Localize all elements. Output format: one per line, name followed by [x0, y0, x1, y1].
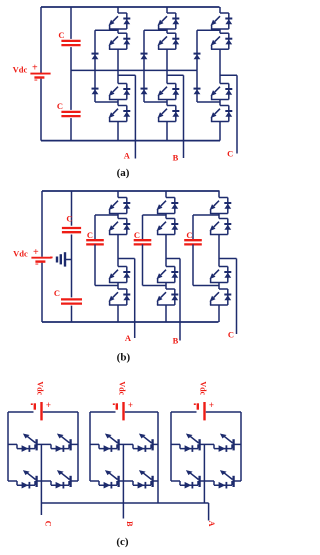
battery Vdc fig(b)	[31, 247, 51, 270]
wire: fig(b) left source wire lower	[41, 263, 43, 322]
wire: fig(a) phase A output horizontal	[118, 74, 135, 76]
transistor switch S2 leg B fig(b)	[157, 219, 179, 235]
transistor switch lower-left cell 3 fig(c)	[180, 470, 200, 488]
wire: fig(a) leg C clamp diode branch upper	[196, 30, 198, 70]
wire: fig(a) capacitor bus lower	[70, 118, 72, 141]
wire: fig(a) leg A between S1 S2	[117, 29, 119, 33]
svg-text:(a): (a)	[117, 167, 130, 179]
svg-text:C: C	[134, 230, 140, 240]
wire: fig(b) leg C emitter to bottom rail	[218, 305, 220, 322]
transistor switch S1 leg B fig(b)	[157, 198, 179, 214]
wire: fig(a) capacitor bus middle	[70, 47, 72, 110]
wire: fig(b) leg A emitter to bottom rail	[117, 305, 119, 322]
svg-text:(c): (c)	[116, 536, 129, 548]
transistor switch S2 leg C fig(a)	[211, 33, 233, 49]
wire: fig(c) cell 2 right side extension to chain	[157, 481, 159, 503]
wire: fig(b) bottom DC rail	[42, 321, 219, 323]
wire: fig(a) capacitor bus upper	[70, 7, 72, 39]
wire: fig(a) leg B junction S1S2 to clamp diodes	[144, 29, 167, 31]
wire: fig(a) top DC rail	[41, 6, 220, 8]
wire: fig(a) leg C clamp diode branch lower	[196, 70, 198, 102]
svg-text:A: A	[124, 151, 131, 161]
clamp diode D1 leg A fig(a)	[92, 54, 99, 60]
wire: fig(b) leg A collector stub	[117, 191, 119, 198]
transistor switch S4 leg A fig(b)	[109, 289, 131, 305]
svg-text:B: B	[173, 336, 179, 346]
wire: fig(a) leg B clamp diode branch lower	[143, 70, 145, 102]
wire: fig(c) cell 1 lower row right	[71, 480, 78, 482]
wire: fig(b) leg A junction S3S4 to flying cap	[95, 285, 118, 287]
transistor switch S3 leg B fig(a)	[158, 84, 180, 100]
wire: fig(b) leg A between S3 S4	[117, 283, 119, 290]
svg-text:Vdc: Vdc	[35, 381, 44, 395]
wire: fig(a) phase B output horizontal	[167, 74, 184, 76]
wire: fig(c) cell 1 upper row left	[8, 443, 17, 445]
wire: fig(a) phase A output drop	[134, 75, 136, 158]
svg-text:Vdc: Vdc	[13, 249, 28, 259]
transistor switch S1 leg C fig(a)	[211, 13, 233, 29]
svg-text:+: +	[33, 247, 39, 258]
wire: fig(c) cell 1 left side	[7, 412, 9, 481]
transistor switch lower-left cell 1 fig(c)	[17, 470, 37, 488]
wire: fig(b) leg A between S1 S2	[117, 214, 119, 219]
wire: fig(a) leg C emitter to bottom rail	[219, 122, 221, 141]
battery cell bars (navy) fig(b)	[50, 252, 72, 266]
transistor switch lower-right cell 2 fig(c)	[133, 470, 153, 488]
wire: fig(c) cell 3 right side	[240, 412, 242, 481]
wire: fig(b) leg A flying cap column lower	[94, 244, 96, 285]
wire: fig(c) cell 2 upper row middle	[119, 443, 133, 445]
transistor switch S1 leg A fig(b)	[109, 198, 131, 214]
svg-text:B: B	[173, 153, 179, 163]
transistor switch S1 leg A fig(a)	[109, 13, 131, 29]
battery Vdc fig(a)	[30, 63, 50, 86]
wire: fig(b) leg B between S3 S4	[165, 283, 167, 290]
wire: fig(a) phase C output drop	[236, 75, 238, 153]
wire: fig(c) cell 2 lower row left	[90, 480, 99, 482]
wire: fig(c) series chain line	[41, 502, 208, 504]
wire: fig(b) top DC rail	[42, 190, 220, 192]
wire: fig(b) phase B output drop	[179, 259, 181, 341]
svg-text:C: C	[66, 214, 72, 224]
svg-text:C: C	[227, 149, 233, 159]
transistor switch S3 leg C fig(a)	[211, 84, 233, 100]
clamp diode D1 leg B fig(a)	[141, 54, 148, 60]
wire: fig(b) leg C between S1 S2	[218, 214, 220, 219]
capacitor C bottom bus fig(b)	[61, 299, 82, 303]
flying capacitor C leg A fig(b)	[86, 240, 104, 244]
transistor switch upper-left cell 1 fig(c)	[17, 434, 37, 452]
svg-text:+: +	[46, 400, 51, 410]
wire: fig(b) leg C middle section	[218, 235, 220, 267]
wire: fig(c) cell 2 left side	[89, 412, 91, 481]
wire: fig(a) leg B middle section	[166, 49, 168, 83]
wire: fig(c) cell 1 upper row middle	[37, 443, 51, 445]
wire: fig(c) cell 1 center column	[40, 444, 42, 503]
wire: fig(a) leg B junction S3S4 to clamp diodes	[144, 101, 167, 103]
transistor switch S4 leg C fig(a)	[211, 106, 233, 122]
wire: fig(c) cell 1 top right	[43, 411, 78, 413]
transistor switch upper-right cell 1 fig(c)	[51, 434, 71, 452]
transistor switch S4 leg B fig(b)	[157, 289, 179, 305]
capacitor C bottom fig(a)	[61, 112, 80, 116]
clamp diode D2 leg C fig(a)	[194, 89, 201, 95]
wire: fig(b) leg A flying cap column upper	[94, 215, 96, 240]
wire: fig(a) leg C junction S1S2 to clamp diodes	[197, 29, 220, 31]
svg-text:Vdc: Vdc	[198, 381, 207, 395]
wire: fig(a) leg B emitter to bottom rail	[166, 122, 168, 141]
wire: fig(c) phase B output drop	[122, 503, 124, 519]
wire: fig(b) phase A output horizontal	[118, 258, 135, 260]
wire: fig(b) leg B middle section	[165, 235, 167, 267]
battery Vdc cell 1 fig(c)	[31, 400, 51, 420]
transistor switch upper-left cell 3 fig(c)	[180, 434, 200, 452]
wire: fig(a) phase C output horizontal	[220, 74, 237, 76]
wire: fig(c) cell 1 lower row left	[8, 480, 17, 482]
wire: fig(c) phase C output drop	[40, 503, 42, 515]
wire: fig(b) leg B junction S1S2 to flying cap	[143, 214, 167, 216]
transistor switch upper-right cell 2 fig(c)	[133, 434, 153, 452]
transistor switch S2 leg A fig(b)	[109, 219, 131, 235]
transistor switch S3 leg A fig(b)	[109, 267, 131, 283]
transistor switch S2 leg A fig(a)	[109, 33, 131, 49]
wire: fig(c) cell 2 top left	[90, 411, 116, 413]
svg-text:A: A	[207, 521, 216, 527]
wire: fig(c) cell 2 lower row right	[153, 480, 158, 482]
svg-text:+: +	[209, 400, 214, 410]
wire: fig(b) leg B emitter to bottom rail	[165, 305, 167, 322]
wire: fig(a) leg C between S1 S2	[219, 29, 221, 33]
wire: fig(a) leg A emitter to bottom rail	[117, 122, 119, 141]
wire: fig(c) cell 3 lower row left	[171, 480, 180, 482]
transistor switch upper-right cell 3 fig(c)	[214, 434, 234, 452]
wire: fig(b) leg C flying cap column upper	[192, 215, 194, 240]
capacitor C top bus fig(b)	[62, 228, 81, 232]
svg-text:(b): (b)	[117, 352, 131, 364]
wire: fig(a) left source wire upper	[40, 7, 42, 73]
transistor switch S3 leg A fig(a)	[109, 84, 131, 100]
svg-text:+: +	[32, 63, 38, 74]
wire: fig(c) cell 3 upper row middle	[200, 443, 214, 445]
wire: fig(b) phase B output horizontal	[166, 258, 180, 260]
wire: fig(a) left source wire lower	[40, 79, 42, 141]
wire: fig(b) leg C junction S3S4 to flying cap	[193, 285, 219, 287]
wire: fig(a) leg B clamp diode branch upper	[143, 30, 145, 70]
flying capacitor C leg B fig(b)	[134, 240, 152, 244]
wire: fig(c) cell 2 right side	[157, 412, 159, 481]
wire: fig(a) leg A clamp diode branch lower	[94, 70, 96, 102]
wire: fig(b) leg B junction S3S4 to flying cap	[143, 285, 167, 287]
transistor switch S3 leg C fig(b)	[210, 267, 232, 283]
wire: fig(c) cell 2 upper row left	[90, 443, 99, 445]
wire: fig(b) phase C output horizontal	[219, 258, 237, 260]
transistor switch S4 leg B fig(a)	[158, 106, 180, 122]
wire: fig(a) leg C between S3 S4	[219, 100, 221, 106]
wire: fig(b) leg B between S1 S2	[165, 214, 167, 219]
wire: fig(a) phase B output drop	[183, 75, 185, 158]
capacitor C top fig(a)	[61, 41, 80, 45]
wire: fig(c) cell 3 upper row right	[234, 443, 241, 445]
wire: fig(a) leg A between S3 S4	[117, 100, 119, 106]
wire: fig(a) leg C middle section	[219, 49, 221, 83]
svg-text:C: C	[58, 30, 64, 40]
wire: fig(c) cell 3 top left	[171, 411, 197, 413]
wire: fig(c) phase A output drop	[208, 503, 210, 521]
wire: fig(a) leg A junction S1S2 to clamp diodes	[95, 29, 118, 31]
battery Vdc cell 2 fig(c)	[113, 400, 133, 420]
wire: fig(b) leg B collector stub	[165, 191, 167, 198]
svg-text:+: +	[128, 400, 133, 410]
wire: fig(c) cell 2 top right	[125, 411, 158, 413]
wire: fig(c) cell 2 upper row right	[153, 443, 158, 445]
svg-text:A: A	[125, 333, 132, 343]
clamp diode D2 leg B fig(a)	[141, 89, 148, 95]
battery Vdc cell 3 fig(c)	[194, 400, 214, 420]
wire: fig(c) cell 1 lower row middle	[37, 480, 51, 482]
wire: fig(c) cell 2 center column	[122, 444, 124, 503]
transistor switch S2 leg C fig(b)	[210, 219, 232, 235]
svg-text:-: -	[35, 258, 39, 270]
wire: fig(c) cell 3 lower row middle	[200, 480, 214, 482]
svg-text:C: C	[87, 230, 93, 240]
wire: fig(a) leg B collector stub	[166, 7, 168, 13]
wire: fig(b) phase A output drop	[134, 259, 136, 339]
wire: fig(c) cell 3 upper row left	[171, 443, 180, 445]
wire: fig(a) leg C junction S3S4 to clamp diodes	[197, 101, 220, 103]
wire: fig(b) leg B flying cap column upper	[142, 215, 144, 240]
svg-text:C: C	[186, 230, 192, 240]
wire: fig(a) leg A clamp diode branch upper	[94, 30, 96, 70]
wire: fig(b) capacitor bus lower	[71, 306, 73, 322]
wire: fig(b) leg C flying cap column lower	[192, 244, 194, 285]
wire: fig(a) leg B between S1 S2	[166, 29, 168, 33]
wire: fig(b) leg C collector stub	[218, 191, 220, 198]
wire: fig(b) leg A junction S1S2 to flying cap	[95, 214, 118, 216]
svg-text:C: C	[54, 288, 60, 298]
svg-text:-: -	[34, 74, 38, 86]
wire: fig(c) cell 1 right side	[77, 412, 79, 481]
wire: fig(a) bottom DC rail	[41, 140, 220, 142]
transistor switch S1 leg B fig(a)	[158, 13, 180, 29]
svg-text:Vdc: Vdc	[13, 65, 28, 75]
transistor switch S2 leg B fig(a)	[158, 33, 180, 49]
wire: fig(a) neutral midpoint line	[71, 69, 197, 71]
wire: fig(c) cell 2 lower row middle	[119, 480, 133, 482]
wire: fig(b) leg B flying cap column lower	[142, 244, 144, 285]
wire: fig(b) leg A middle section	[117, 235, 119, 267]
wire: fig(c) cell 3 lower row right	[234, 480, 241, 482]
transistor switch S4 leg A fig(a)	[109, 106, 131, 122]
clamp diode D2 leg A fig(a)	[92, 89, 99, 95]
wire: fig(b) left source wire upper	[41, 191, 43, 257]
transistor switch lower-right cell 1 fig(c)	[51, 470, 71, 488]
transistor switch S3 leg B fig(b)	[157, 267, 179, 283]
wire: fig(b) phase C output drop	[236, 259, 238, 335]
wire: fig(c) cell 3 top right	[206, 411, 241, 413]
transistor switch S4 leg C fig(b)	[210, 289, 232, 305]
wire: fig(c) cell 1 top left	[8, 411, 34, 413]
transistor switch upper-left cell 2 fig(c)	[99, 434, 119, 452]
wire: fig(b) capacitor bus upper	[71, 191, 73, 226]
wire: fig(b) leg C between S3 S4	[218, 283, 220, 290]
flying capacitor C leg C fig(b)	[184, 240, 202, 244]
wire: fig(a) leg A collector stub	[117, 7, 119, 13]
wire: fig(a) leg C collector stub	[219, 7, 221, 13]
transistor switch lower-left cell 2 fig(c)	[99, 470, 119, 488]
wire: fig(b) leg C junction S1S2 to flying cap	[193, 214, 219, 216]
wire: fig(b) capacitor bus middle	[71, 235, 73, 298]
wire: fig(a) leg A middle section	[117, 49, 119, 83]
svg-text:Vdc: Vdc	[117, 381, 126, 395]
wire: fig(c) cell 3 center column	[203, 444, 205, 503]
transistor switch S1 leg C fig(b)	[210, 198, 232, 214]
wire: fig(a) leg B between S3 S4	[166, 100, 168, 106]
wire: fig(a) leg A junction S3S4 to clamp diodes	[95, 101, 118, 103]
svg-text:C: C	[228, 330, 234, 340]
svg-text:B: B	[125, 521, 134, 527]
svg-text:C: C	[57, 101, 63, 111]
clamp diode D1 leg C fig(a)	[194, 54, 201, 60]
svg-text:C: C	[44, 521, 53, 527]
wire: fig(c) cell 3 left side	[170, 412, 172, 481]
transistor switch lower-right cell 3 fig(c)	[214, 470, 234, 488]
wire: fig(c) cell 1 upper row right	[71, 443, 78, 445]
